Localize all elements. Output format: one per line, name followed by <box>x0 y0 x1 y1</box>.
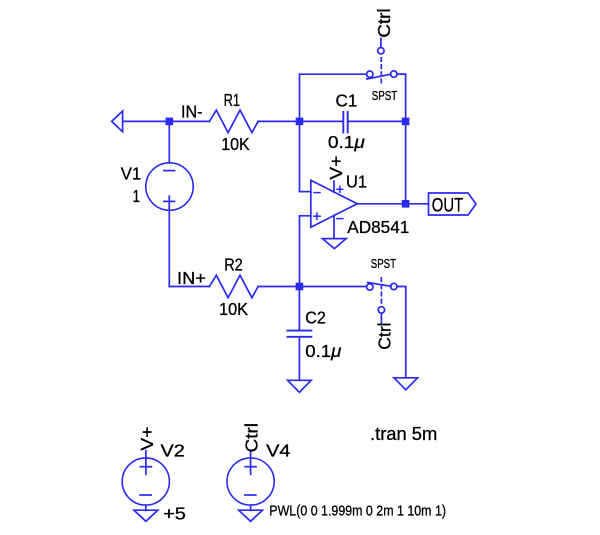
svg-text:Ctrl: Ctrl <box>374 8 394 37</box>
wire feedback vertical <box>299 74 301 191</box>
net flag IN- arrow <box>112 111 123 132</box>
voltage source V1 <box>146 121 193 286</box>
svg-text:PWL(0 0 1.999m 0 2m 1 10m 1): PWL(0 0 1.999m 0 2m 1 10m 1) <box>269 503 446 520</box>
node IN- junction <box>166 118 174 126</box>
resistor R2 <box>209 275 258 298</box>
svg-text:V+: V+ <box>326 156 346 180</box>
svg-text:V2: V2 <box>161 441 185 461</box>
svg-text:R2: R2 <box>224 255 243 275</box>
wire IN+ row left <box>169 286 209 288</box>
op-amp U1 <box>311 180 357 238</box>
svg-text:0.1μ: 0.1μ <box>305 341 341 361</box>
port OUT <box>429 193 477 215</box>
svg-text:AD8541: AD8541 <box>347 217 409 237</box>
wire op-amp minus input <box>300 191 311 193</box>
switch S1 SPST <box>367 71 397 79</box>
node feedback junction <box>296 118 304 126</box>
wire R1 to C1 node <box>258 120 342 122</box>
svg-text:SPST: SPST <box>372 89 398 103</box>
svg-text:Ctrl: Ctrl <box>242 423 262 452</box>
svg-text:Ctrl: Ctrl <box>375 322 395 349</box>
node C1 right junction <box>402 118 410 126</box>
svg-text:1: 1 <box>133 186 141 206</box>
node IN+ junction <box>296 283 304 291</box>
svg-text:10K: 10K <box>221 134 250 154</box>
svg-text:R1: R1 <box>224 90 241 110</box>
wire op-amp plus input <box>300 216 311 287</box>
voltage source V2 <box>122 451 169 511</box>
ground right <box>394 378 418 390</box>
svg-text:10K: 10K <box>219 299 248 319</box>
wire S1 control dashed <box>380 58 382 83</box>
voltage source V4 <box>227 451 274 511</box>
wire top bypass left <box>300 73 367 75</box>
wire S2 control dashed <box>380 278 382 307</box>
svg-text:IN+: IN+ <box>177 268 206 288</box>
svg-text:C1: C1 <box>336 91 358 111</box>
svg-text:V+: V+ <box>137 426 157 450</box>
wire top bypass right <box>397 74 406 204</box>
ground C2 <box>288 380 312 392</box>
svg-text:OUT: OUT <box>432 195 463 217</box>
svg-text:0.1μ: 0.1μ <box>328 132 365 152</box>
wire IN- row left <box>123 120 209 122</box>
svg-text:V4: V4 <box>266 441 291 461</box>
svg-text:U1: U1 <box>346 172 367 192</box>
wire R2 to C2 node <box>258 286 367 288</box>
svg-text:+5: +5 <box>163 503 186 523</box>
svg-text:SPST: SPST <box>371 257 396 271</box>
ground V4 <box>239 510 263 521</box>
svg-text:.tran 5m: .tran 5m <box>370 423 437 444</box>
svg-text:IN-: IN- <box>181 101 203 121</box>
wire S2 to ground <box>397 287 406 378</box>
node output junction <box>402 200 410 208</box>
capacitor C2 <box>287 290 311 380</box>
ground V2 <box>134 510 158 521</box>
wire output <box>357 203 428 205</box>
svg-text:V1: V1 <box>121 163 142 183</box>
svg-text:C2: C2 <box>305 307 326 327</box>
resistor R1 <box>209 110 258 133</box>
capacitor C1 <box>343 112 405 133</box>
wire S1 control stub <box>380 38 382 47</box>
ground op-amp <box>323 239 347 249</box>
wire S2 control stub <box>380 313 382 322</box>
node S2 control terminal <box>378 307 384 313</box>
switch S2 SPST <box>367 283 397 291</box>
node S1 control terminal <box>378 48 384 54</box>
